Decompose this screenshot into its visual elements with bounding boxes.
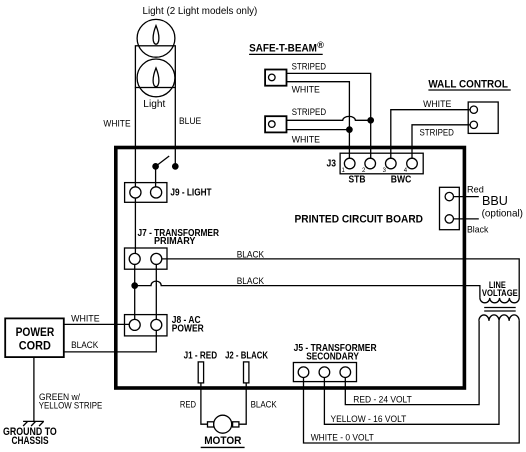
- connector J3: [340, 153, 423, 174]
- terminal J1: [198, 362, 203, 383]
- connector J7: [125, 248, 168, 269]
- svg-text:WHITE: WHITE: [292, 84, 320, 94]
- svg-text:RED: RED: [180, 400, 197, 410]
- wire: switch to J9 pin 2: [155, 166, 157, 187]
- svg-text:PRIMARY: PRIMARY: [154, 236, 196, 247]
- wire: red BBU lead: [454, 196, 479, 198]
- svg-text:WHITE - 0 VOLT: WHITE - 0 VOLT: [311, 433, 375, 443]
- power cord box: [5, 318, 64, 357]
- filament (lower bulb): [153, 68, 159, 87]
- svg-text:CHASSIS: CHASSIS: [12, 435, 49, 447]
- junction dot (white net): [347, 127, 352, 132]
- light relay switch (open): [153, 156, 178, 169]
- svg-text:Light (2 Light models only): Light (2 Light models only): [143, 6, 258, 17]
- svg-text:J1 - RED: J1 - RED: [184, 351, 218, 362]
- svg-text:BWC: BWC: [391, 174, 412, 185]
- svg-text:2: 2: [362, 168, 366, 174]
- connector J8: [125, 315, 168, 336]
- wire: striped, lower sensor to junction at J3 pin2 net, hops over white wire: [286, 116, 371, 120]
- svg-text:(optional): (optional): [482, 208, 523, 219]
- wire: blue lamp lead (lamp to light switch): [174, 88, 176, 167]
- safe-t-beam sensor (upper): [265, 70, 286, 86]
- wire: white 0 volt, J5 pin1 to secondary right tap: [304, 321, 520, 443]
- wire: red 24 volt, J5 pin3 to secondary left tap: [345, 321, 479, 405]
- wire: J9 pin1 down to J7 pin1: [134, 198, 136, 253]
- svg-text:MOTOR: MOTOR: [204, 435, 241, 447]
- svg-text:BLACK: BLACK: [237, 276, 264, 286]
- svg-text:PRINTED CIRCUIT BOARD: PRINTED CIRCUIT BOARD: [295, 214, 424, 226]
- wire: white lamp lead (lamp to J9 pin 1): [134, 88, 136, 188]
- wire: red motor lead: [201, 383, 208, 424]
- svg-text:WHITE: WHITE: [423, 99, 451, 109]
- transformer secondary winding: [479, 315, 519, 321]
- wire: green w/ yellow stripe, power cord to chassis ground: [33, 357, 35, 421]
- svg-text:BLACK: BLACK: [237, 249, 264, 259]
- wire: striped, wall control to J3 pin 4: [412, 125, 470, 159]
- filament (upper bulb): [153, 26, 159, 45]
- wire: yellow 16 volt, J5 pin2 to secondary center tap: [324, 321, 499, 424]
- wire: black, junction to transformer primary (left), hops over J7-J8 wire: [135, 281, 480, 298]
- svg-text:POWER: POWER: [16, 325, 55, 339]
- connector J5: [293, 363, 356, 382]
- terminal J2: [244, 362, 249, 383]
- wall control box: [468, 102, 498, 133]
- svg-text:VOLTAGE: VOLTAGE: [482, 288, 518, 298]
- transformer core: [484, 308, 516, 312]
- connector BBU: [440, 187, 460, 229]
- svg-text:WHITE: WHITE: [103, 119, 130, 129]
- underline of MOTOR: [201, 446, 245, 448]
- wire: black, J7 pin2 to transformer primary (right): [162, 259, 519, 298]
- svg-text:4: 4: [404, 168, 408, 174]
- junction dot (striped net): [368, 118, 373, 123]
- wire: black BBU lead: [454, 218, 479, 220]
- svg-text:Light: Light: [143, 99, 165, 110]
- wire: black, power cord to J8 pin2: [64, 330, 157, 352]
- wire: white, power cord to J8 pin1: [64, 323, 129, 325]
- wire: J7 pin1 down to junction: [134, 264, 136, 285]
- light bulb (upper): [137, 19, 175, 57]
- junction dot (J7/J8 white net): [132, 283, 137, 288]
- svg-text:WALL CONTROL: WALL CONTROL: [428, 78, 508, 90]
- wire: white, lower sensor to junction at J3 pin1 net: [286, 129, 349, 131]
- svg-text:RED - 24 VOLT: RED - 24 VOLT: [353, 395, 412, 405]
- safe-t-beam sensor (lower): [265, 116, 286, 132]
- wire: white, wall control to J3 pin 3: [391, 110, 470, 159]
- svg-text:YELLOW - 16 VOLT: YELLOW - 16 VOLT: [331, 414, 407, 424]
- svg-text:SAFE-T-BEAM: SAFE-T-BEAM: [249, 42, 317, 54]
- wire: junction down to J8 pin1: [134, 289, 136, 320]
- svg-text:J9 - LIGHT: J9 - LIGHT: [170, 188, 211, 199]
- svg-text:BLACK: BLACK: [251, 400, 277, 410]
- svg-text:STRIPED: STRIPED: [420, 128, 455, 138]
- wire: white, upper sensor to J3 pin 1: [286, 82, 349, 159]
- svg-text:®: ®: [317, 40, 324, 50]
- connector J9: [125, 183, 167, 203]
- svg-text:WHITE: WHITE: [292, 135, 320, 145]
- transformer primary winding: [480, 298, 519, 303]
- svg-text:STB: STB: [349, 174, 366, 185]
- svg-text:SECONDARY: SECONDARY: [306, 352, 359, 363]
- underline of SAFE-T-BEAM: [249, 53, 323, 55]
- wire: J7 pin2 down to J8 pin2: [155, 264, 157, 319]
- chassis ground symbol: [23, 421, 44, 426]
- svg-text:POWER: POWER: [172, 323, 204, 334]
- svg-text:J3: J3: [327, 159, 337, 170]
- wire: black motor lead: [239, 383, 246, 424]
- svg-text:BLUE: BLUE: [179, 116, 201, 126]
- lamp body rectangle: [135, 46, 175, 88]
- printed circuit board outline: [116, 148, 465, 389]
- svg-text:1: 1: [342, 168, 346, 174]
- svg-text:3: 3: [383, 168, 387, 174]
- underline of WALL CONTROL: [428, 89, 510, 91]
- svg-text:J2 - BLACK: J2 - BLACK: [225, 351, 268, 362]
- light bulb (lower): [137, 59, 175, 97]
- svg-text:BLACK: BLACK: [71, 340, 98, 350]
- svg-text:YELLOW STRIPE: YELLOW STRIPE: [39, 401, 103, 411]
- svg-text:WHITE: WHITE: [71, 313, 100, 323]
- svg-text:BBU: BBU: [482, 193, 508, 208]
- wire: striped, upper sensor to J3 pin 2: [286, 73, 371, 158]
- svg-text:CORD: CORD: [19, 338, 51, 352]
- svg-text:STRIPED: STRIPED: [292, 61, 327, 71]
- svg-text:STRIPED: STRIPED: [292, 107, 327, 117]
- motor M: [208, 415, 239, 433]
- svg-text:Black: Black: [467, 224, 489, 235]
